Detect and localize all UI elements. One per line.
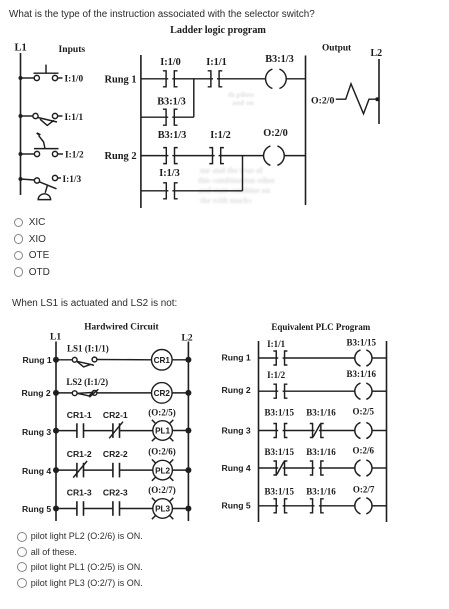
wire rung 1 to LS1 <box>56 359 72 361</box>
svg-text:B3:1/16: B3:1/16 <box>306 447 336 457</box>
svg-text:Rung 1: Rung 1 <box>105 75 137 86</box>
svg-text:Rung 5: Rung 5 <box>222 501 251 511</box>
label O:2/0 output device <box>311 95 335 106</box>
wire PLC rung 3 segment c <box>319 430 355 432</box>
label Rung 2 <box>105 151 137 162</box>
label Rung 5 (hardwired) <box>22 504 51 514</box>
wire L1 to limit switch I:1/2 <box>21 153 35 155</box>
svg-text:I:1/3: I:1/3 <box>63 175 82 185</box>
label I:1/1 (selector switch address) <box>65 113 84 123</box>
svg-text:this combination other: this combination other <box>198 176 276 185</box>
selector switch I:1/1 <box>33 113 58 125</box>
svg-text:B3:1/15: B3:1/15 <box>265 486 295 496</box>
contact CR2-1 NC <box>109 422 123 439</box>
wire branch 2 vertical <box>242 156 244 191</box>
relay coil CR2 <box>152 383 173 404</box>
node junction L1 rung 1 <box>53 357 59 363</box>
label Rung 5 (PLC) <box>222 501 251 511</box>
wire PLC rung 2 segment a <box>259 390 279 392</box>
svg-text:(O:2/6): (O:2/6) <box>148 446 176 456</box>
svg-text:B3:1/16: B3:1/16 <box>306 486 336 496</box>
label Rung 3 (hardwired) <box>22 427 51 437</box>
contact CR1-2 NC <box>73 461 87 478</box>
svg-text:B3:1/15: B3:1/15 <box>265 447 295 457</box>
foot switch I:1/3 <box>34 175 57 199</box>
label (O:2/7) <box>148 485 176 495</box>
wire stub to label I:1/3 <box>58 177 61 179</box>
svg-text:O:2/6: O:2/6 <box>353 445 375 455</box>
wire rung 2 segment c <box>219 155 264 157</box>
label B3:1/3 above coil <box>265 54 294 65</box>
radio option XIC <box>14 218 24 228</box>
wire rung 4 segment a <box>56 469 77 471</box>
svg-text:CR1-2: CR1-2 <box>67 449 92 459</box>
contact XIC I:1/0 <box>163 71 178 87</box>
label B3:1/15 (rung4) <box>265 447 295 457</box>
radio option pilot light PL3 <box>17 578 27 588</box>
coil OTE B3:1/15 <box>355 350 372 366</box>
figure 2: Equivalent PLC Program title <box>271 322 370 332</box>
limit switch LS1 (I:1/1) NO <box>72 357 97 367</box>
limit switch LS2 (I:1/2) NC held <box>72 389 98 397</box>
wire branch 1 horizontal b <box>172 116 194 118</box>
wire rung 1 segment b <box>172 78 213 80</box>
wire PLC rung 4 segment b <box>283 467 315 469</box>
wire rung 2 segment b <box>172 155 214 157</box>
svg-text:CR1-3: CR1-3 <box>67 487 92 497</box>
wire LS2 to CR2 <box>97 392 152 394</box>
contact XIC B3:1/16 (PLC rung5) <box>310 499 324 513</box>
svg-text:Rung 3: Rung 3 <box>222 425 251 435</box>
node junction on L1 rail row I:1/0 <box>19 76 23 80</box>
wire L1 to pushbutton PB I:1/0 <box>21 77 35 79</box>
svg-text:CR2-1: CR2-1 <box>103 410 128 420</box>
wire ladder right rail <box>305 56 307 206</box>
wire rung 1 segment c <box>217 78 266 80</box>
svg-text:CR1: CR1 <box>154 356 171 365</box>
question 1 text <box>9 9 315 20</box>
svg-text:Rung 3: Rung 3 <box>22 427 51 437</box>
node junction on L2 rail <box>375 97 379 101</box>
svg-text:Rung 5: Rung 5 <box>22 504 51 514</box>
node junction L1 rung 5 <box>53 506 59 512</box>
node L1 label (inputs) <box>15 43 27 54</box>
wire PLC rung 4 segment d <box>372 467 387 469</box>
wire ladder left rail <box>140 55 142 208</box>
svg-text:I:1/0: I:1/0 <box>160 57 181 68</box>
contact XIC B3:1/15 (PLC rung3) <box>273 424 287 438</box>
svg-text:me and the true of: me and the true of <box>200 166 263 175</box>
wire rung 5 segment a <box>56 508 77 510</box>
label LS2 (I:1/2) <box>66 377 108 387</box>
contact CR2-2 NO <box>113 463 120 478</box>
pilot light PL1 <box>152 420 173 441</box>
radio option OTE <box>14 251 24 261</box>
label Rung 3 (PLC) <box>222 425 251 435</box>
svg-text:Equivalent PLC Program: Equivalent PLC Program <box>271 322 370 332</box>
node junction on L1 rail row I:1/2 <box>19 152 23 156</box>
wire rung 3 segment a <box>56 430 77 432</box>
label CR1-1 <box>67 410 92 420</box>
wire PLC rung 4 segment a <box>259 467 279 469</box>
lever switch I:1/2 (NO with operator lever) <box>34 132 59 156</box>
Inputs header label <box>59 44 86 55</box>
wire rung 1 segment d <box>286 78 305 80</box>
contact XIC B3:1/3 (branch) <box>163 109 178 125</box>
label CR2-2 <box>103 449 128 459</box>
node junction L2 rung 3 <box>185 428 191 434</box>
coil OTE O:2/0 <box>264 146 285 165</box>
svg-text:PL3: PL3 <box>155 505 170 514</box>
label I:1/1 above contact <box>206 57 227 68</box>
svg-text:the with marks: the with marks <box>200 196 252 205</box>
contact CR1-1 NO <box>77 423 84 438</box>
svg-text:Rung 2: Rung 2 <box>105 151 137 162</box>
label Output header <box>322 43 352 53</box>
pilot light PL3 <box>152 498 173 519</box>
svg-text:Inputs: Inputs <box>59 44 86 55</box>
radio option OTD <box>14 267 24 277</box>
wire hardwired L1 rail <box>55 342 57 522</box>
svg-text:I:1/1: I:1/1 <box>65 113 84 123</box>
svg-text:I:1/2: I:1/2 <box>267 370 286 380</box>
question 2 text <box>12 298 177 309</box>
scan bleed-through ghost text (decorative) <box>198 90 276 205</box>
wire PLC rung 5 segment d <box>372 505 387 507</box>
contact CR1-3 NO <box>77 501 84 516</box>
svg-text:PL2: PL2 <box>155 466 170 475</box>
label Rung 1 (hardwired) <box>23 355 52 365</box>
label Rung 4 (PLC) <box>222 463 251 473</box>
relay coil CR1 <box>152 350 173 371</box>
wire branch 1 vertical <box>193 79 195 117</box>
contact CR2-3 NO <box>113 501 120 516</box>
wire branch 1 horizontal a <box>141 116 168 118</box>
node junction L2 rung 2 <box>185 390 191 396</box>
wire PLC rung 1 segment c <box>372 357 387 359</box>
wire PLC rung 3 segment d <box>372 430 387 432</box>
svg-text:Rung 2: Rung 2 <box>22 388 51 398</box>
node junction L1 rung 4 <box>53 467 59 473</box>
label O:2/6 (PLC) <box>353 445 375 455</box>
svg-text:and on: and on <box>232 98 255 107</box>
wire L1 input rail <box>20 53 22 195</box>
wire branch 2 horizontal a <box>141 190 169 192</box>
label Rung 1 <box>105 75 137 86</box>
wire L1 to selector switch I:1/1 <box>21 115 33 117</box>
label I:1/2 <box>65 151 84 161</box>
svg-text:LS1 (I:1/1): LS1 (I:1/1) <box>67 344 109 354</box>
wire PLC rung 2 segment c <box>372 390 387 392</box>
svg-text:CR2: CR2 <box>154 389 171 398</box>
node junction L2 rung 5 <box>185 506 191 512</box>
wire stub to label I:1/1 <box>58 115 63 117</box>
contact XIC I:1/1 <box>208 71 223 87</box>
wire rung 4 segment c <box>120 469 153 471</box>
svg-text:Rung 2: Rung 2 <box>222 385 251 395</box>
label O:2/7 (PLC) <box>353 484 375 494</box>
wire stub to label I:1/0 <box>58 77 63 79</box>
node junction L1 rung 3 <box>53 428 59 434</box>
contact XIO B3:1/15 (PLC rung4) <box>273 461 287 475</box>
contact XIC I:1/2 (PLC) <box>273 384 287 398</box>
coil OTE B3:1/3 <box>266 69 287 88</box>
svg-text:CR1-1: CR1-1 <box>67 410 92 420</box>
svg-text:Rung 1: Rung 1 <box>23 355 52 365</box>
svg-text:O:2/5: O:2/5 <box>353 406 375 416</box>
contact XIC B3:1/16 (PLC rung4) <box>310 461 324 475</box>
svg-text:Rung 1: Rung 1 <box>222 353 251 363</box>
svg-text:CR2-2: CR2-2 <box>103 449 128 459</box>
label I:1/1 (PLC) <box>267 339 286 349</box>
wire PLC rung 2 segment b <box>283 390 355 392</box>
svg-text:and state combine on: and state combine on <box>198 186 271 195</box>
label I:1/2 rung 2 <box>210 130 231 141</box>
node junction L1 rung 2 <box>53 390 59 396</box>
svg-text:Hardwired Circuit: Hardwired Circuit <box>84 323 159 333</box>
svg-text:I:1/2: I:1/2 <box>210 130 231 141</box>
node junction L2 rung 4 <box>185 467 191 473</box>
coil OTE O:2/6 <box>355 460 372 476</box>
label I:1/0 above contact <box>160 57 181 68</box>
node junction on L1 rail row I:1/3 <box>19 177 23 181</box>
contact XIC I:1/2 <box>209 148 224 164</box>
svg-text:L1: L1 <box>50 333 61 343</box>
svg-text:B3:1/3: B3:1/3 <box>265 54 294 65</box>
wire PLC rung 5 segment a <box>259 505 279 507</box>
svg-text:I:1/1: I:1/1 <box>267 339 286 349</box>
label (O:2/6) <box>148 446 176 456</box>
radio option XIO <box>14 234 24 244</box>
contact XIC B3:1/3 (rung 2) <box>163 148 178 164</box>
pushbutton I:1/0 (NO pushbutton) <box>34 65 59 81</box>
wire rung 2 segment a <box>141 155 169 157</box>
svg-text:I:1/0: I:1/0 <box>65 75 84 85</box>
svg-text:Output: Output <box>322 43 352 53</box>
wire PLC right rail <box>386 341 388 522</box>
label B3:1/16 (rung3) <box>306 407 336 417</box>
label Rung 2 (hardwired) <box>22 388 51 398</box>
wire PLC rung 5 segment b <box>283 505 315 507</box>
svg-text:PL1: PL1 <box>155 427 170 436</box>
wire rung 4 segment b <box>84 469 113 471</box>
svg-text:I:1/1: I:1/1 <box>206 57 227 68</box>
label CR2-1 <box>103 410 128 420</box>
svg-text:O:2/7: O:2/7 <box>353 484 375 494</box>
svg-text:(O:2/7): (O:2/7) <box>148 485 176 495</box>
label B3:1/3 rung 2 <box>158 130 187 141</box>
label CR1-3 <box>67 487 92 497</box>
radio option all of these <box>17 547 27 557</box>
wire L1 to foot switch I:1/3 <box>21 179 35 180</box>
radio option pilot light PL1 <box>17 562 27 572</box>
wire CR1 to L2 <box>172 359 188 361</box>
contact XIC I:1/1 (PLC) <box>273 351 287 365</box>
contact XIC B3:1/15 (PLC rung5) <box>273 499 287 513</box>
svg-text:B3:1/3: B3:1/3 <box>158 130 187 141</box>
svg-text:B3:1/15: B3:1/15 <box>347 338 377 348</box>
svg-text:O:2/0: O:2/0 <box>311 95 335 106</box>
label I:1/3 <box>63 175 82 185</box>
svg-text:(O:2/5): (O:2/5) <box>148 408 176 418</box>
wire rung 3 segment c <box>120 430 153 432</box>
wire PL1 to L2 <box>172 430 188 432</box>
label B3:1/15 (rung3) <box>265 407 295 417</box>
radio option pilot light PL2 <box>17 532 27 542</box>
wire LS1 to CR1 <box>97 359 152 361</box>
svg-text:L2: L2 <box>371 48 383 59</box>
label I:1/0 (input address) <box>65 75 84 85</box>
wire branch 2 horizontal b <box>172 190 242 192</box>
heater element O:2/0 (zigzag) <box>336 84 379 114</box>
wire rung 5 segment b <box>84 508 113 510</box>
wire PLC rung 3 segment a <box>259 430 279 432</box>
label B3:1/3 above branch contact <box>157 97 186 108</box>
wire PLC left rail <box>258 341 260 522</box>
wire CR2 to L2 <box>172 392 188 394</box>
svg-text:I:1/3: I:1/3 <box>159 168 180 179</box>
wire rung 2 to LS2 <box>56 392 72 394</box>
svg-text:Rung 4: Rung 4 <box>22 466 51 476</box>
node junction L2 rung 1 <box>185 357 191 363</box>
label Rung 1 (PLC) <box>222 353 251 363</box>
svg-text:B3:1/16: B3:1/16 <box>306 407 336 417</box>
wire hardwired L2 rail <box>187 342 189 522</box>
label B3:1/16 (rung4) <box>306 447 336 457</box>
svg-text:L1: L1 <box>15 43 27 54</box>
label B3:1/16 (rung5) <box>306 486 336 496</box>
coil OTE O:2/7 <box>355 498 372 514</box>
node L2 label (hardwired) <box>182 334 193 344</box>
wire L2 output rail <box>378 59 380 124</box>
svg-text:Rung 4: Rung 4 <box>222 463 251 473</box>
label CR2-3 <box>103 487 128 497</box>
svg-text:L2: L2 <box>182 334 193 344</box>
contact XIC I:1/3 (branch) <box>163 183 178 199</box>
svg-text:I:1/2: I:1/2 <box>65 151 84 161</box>
label Rung 4 (hardwired) <box>22 466 51 476</box>
figure 2: Hardwired Circuit title <box>84 323 159 333</box>
label B3:1/15 (PLC rung1) <box>347 338 377 348</box>
node L1 label (hardwired) <box>50 333 61 343</box>
node L2 label <box>371 48 383 59</box>
svg-text:B3:1/16: B3:1/16 <box>347 369 377 379</box>
svg-text:O:2/0: O:2/0 <box>263 128 288 139</box>
svg-text:CR2-3: CR2-3 <box>103 487 128 497</box>
label O:2/5 (PLC) <box>353 406 375 416</box>
coil OTE O:2/5 <box>355 422 372 438</box>
wire stub to label I:1/2 <box>58 153 63 155</box>
label Rung 2 (PLC) <box>222 385 251 395</box>
contact XIO B3:1/16 (PLC rung3) <box>310 424 324 438</box>
label (O:2/5) <box>148 408 176 418</box>
wire PLC rung 5 segment c <box>319 505 355 507</box>
svg-text:B3:1/15: B3:1/15 <box>265 407 295 417</box>
svg-text:Ladder logic program: Ladder logic program <box>170 25 266 36</box>
svg-text:LS2 (I:1/2): LS2 (I:1/2) <box>66 377 108 387</box>
wire PLC rung 1 segment b <box>283 357 355 359</box>
wire PL2 to L2 <box>172 469 188 471</box>
label B3:1/15 (rung5) <box>265 486 295 496</box>
wire rung 2 segment d <box>284 155 305 157</box>
label I:1/2 (PLC) <box>267 370 286 380</box>
wire PLC rung 4 segment c <box>319 467 355 469</box>
label B3:1/16 (PLC rung2) <box>347 369 377 379</box>
figure 1: Ladder logic program title <box>170 25 266 36</box>
wire PL3 to L2 <box>172 508 188 510</box>
wire rung 5 segment c <box>120 508 153 510</box>
node junction on L1 rail row I:1/1 <box>19 114 23 118</box>
pilot light PL2 <box>152 459 173 480</box>
wire rung 1 segment a <box>141 78 168 80</box>
label O:2/0 above coil <box>263 128 288 139</box>
label CR1-2 <box>67 449 92 459</box>
label I:1/3 branch <box>159 168 180 179</box>
coil OTE B3:1/16 <box>355 383 372 399</box>
wire PLC rung 3 segment b <box>283 430 315 432</box>
wire rung 3 segment b <box>84 430 113 432</box>
label LS1 (I:1/1) <box>67 344 109 354</box>
svg-text:B3:1/3: B3:1/3 <box>157 97 186 108</box>
wire PLC rung 1 segment a <box>259 357 279 359</box>
